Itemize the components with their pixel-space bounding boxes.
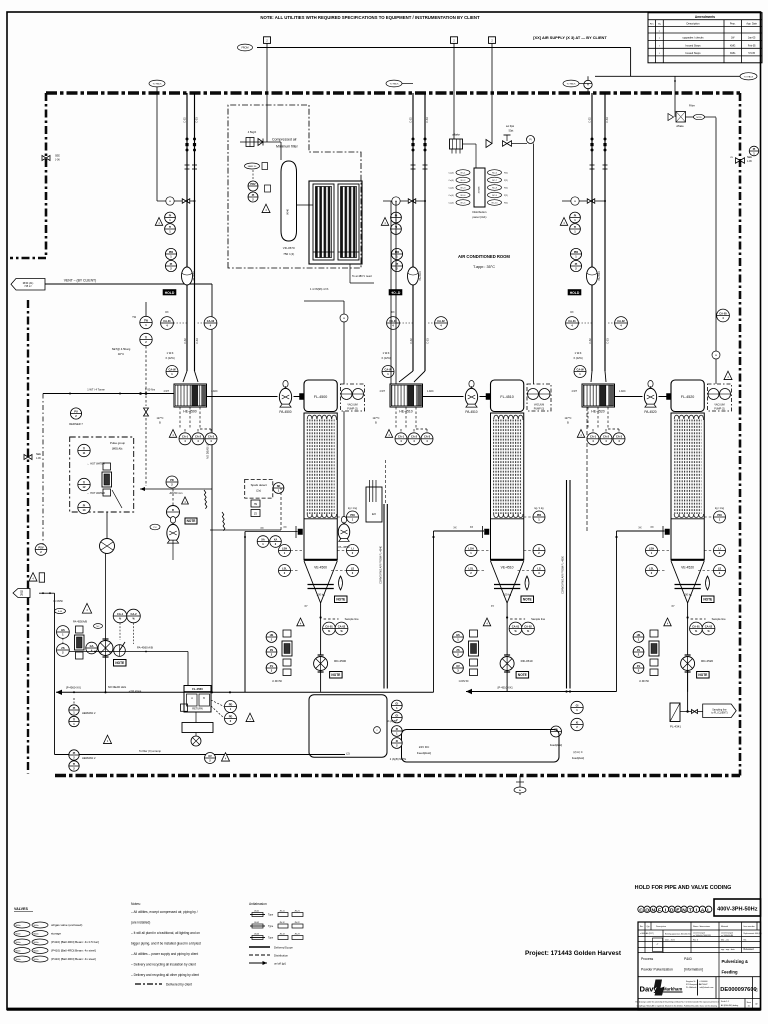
svg-text:XI: XI xyxy=(396,739,399,743)
svg-text:[P]: [P] xyxy=(20,594,23,597)
svg-text:4-MAN: 4-MAN xyxy=(478,186,481,193)
svg-text:Davy/Krupp. Metals AG is regis: Davy/Krupp. Metals AG is registered. Sha… xyxy=(637,1005,718,1008)
filter body FL-4510 xyxy=(491,413,524,560)
svg-text:info@davmk.com: info@davmk.com xyxy=(700,987,714,989)
packing enclosure 1 xyxy=(309,695,387,758)
instrument bubble xyxy=(273,483,284,494)
svg-text:CA-2: CA-2 xyxy=(603,435,610,439)
svg-text:FL-4520: FL-4520 xyxy=(681,395,694,399)
symbol row xyxy=(252,913,263,917)
feeder drop 4520 xyxy=(687,671,689,692)
svg-text:JN-12: JN-12 xyxy=(279,922,285,924)
svg-text:P(2): P(2) xyxy=(504,203,508,205)
svg-text:V040: V040 xyxy=(286,208,290,215)
svg-text:VE-4520: VE-4520 xyxy=(681,566,694,570)
svg-text:M: M xyxy=(343,318,345,320)
vessel instruments left 4500 xyxy=(279,545,291,557)
svg-text:[P-4560-XX]: [P-4560-XX] xyxy=(66,686,81,690)
heat exchanger HE-4500 xyxy=(174,384,207,407)
svg-text:LSH: LSH xyxy=(468,546,473,550)
pressure control valve xyxy=(503,141,512,147)
intake blower 4510 xyxy=(408,267,419,285)
svg-text:⅓ DN 50: ⅓ DN 50 xyxy=(639,680,649,683)
svg-text:Cu(4): Cu(4) xyxy=(448,173,453,175)
svg-text:LSH: LSH xyxy=(649,546,654,550)
svg-text:TI: TI xyxy=(83,480,86,484)
svg-text:XX: XX xyxy=(283,526,287,529)
sample line 4500 xyxy=(324,618,339,620)
svg-text:NOTE: NOTE xyxy=(331,673,340,677)
svg-text:XY: XY xyxy=(671,605,675,608)
svg-text:1 ADC: 1 ADC xyxy=(619,390,626,393)
svg-text:CA-02: CA-02 xyxy=(207,319,215,323)
svg-text:– All utilities, except compre: – All utilities, except compressed air, … xyxy=(131,910,198,914)
valve list row xyxy=(14,956,30,962)
svg-text:ZS: ZS xyxy=(637,648,641,652)
svg-text:FROM: FROM xyxy=(241,47,248,50)
outlet elbow A xyxy=(304,300,344,302)
valve list row xyxy=(14,939,30,945)
instrument pair xyxy=(257,536,269,548)
svg-text:Filter: Filter xyxy=(689,104,695,108)
pump discharge xyxy=(105,553,107,692)
svg-text:PA-4510: PA-4510 xyxy=(465,410,477,414)
note box 4520 xyxy=(702,596,715,603)
instrument pair right xyxy=(749,146,759,156)
svg-text:L: L xyxy=(707,907,710,913)
svg-text:P&ID: P&ID xyxy=(684,957,692,961)
svg-text:x 0601-A4 (1117): x 0601-A4 (1117) xyxy=(640,932,654,935)
riser pipes 4500 xyxy=(186,93,188,371)
filter C feed elbow xyxy=(617,530,665,532)
svg-text:750 l (4): 750 l (4) xyxy=(283,252,294,256)
enclosure instruments xyxy=(391,700,402,711)
diverter valve xyxy=(98,641,113,656)
svg-text:REFINER 7: REFINER 7 xyxy=(69,422,83,426)
svg-text:5.5.05: 5.5.05 xyxy=(748,52,755,55)
svg-text:This drawing is under the owne: This drawing is under the ownership of t… xyxy=(635,1001,719,1004)
svg-text:P(2): P(2) xyxy=(504,173,508,175)
svg-text:LSL: LSL xyxy=(282,566,287,570)
wire from flag to package xyxy=(266,48,268,143)
svg-text:Rev: Rev xyxy=(640,926,643,928)
svg-text:Rel.: Rel. xyxy=(744,940,748,942)
svg-text:PD: PD xyxy=(229,714,233,718)
svg-text:100 kg: 100 kg xyxy=(317,593,326,597)
svg-text:A: A xyxy=(701,907,705,913)
battery limit left lower xyxy=(27,300,29,774)
svg-text:VD-4570: VD-4570 xyxy=(283,246,295,250)
svg-text:XV: XV xyxy=(270,664,274,668)
vacuum pump unit 4500 xyxy=(341,384,365,411)
svg-text:PA-4550A/B: PA-4550A/B xyxy=(73,620,87,624)
hot water valve stack xyxy=(103,463,111,470)
svg-text:Project: 171443 Golden Harvest: Project: 171443 Golden Harvest xyxy=(525,950,622,957)
svg-text:JN-21: JN-21 xyxy=(294,910,300,912)
intake blower 4520 xyxy=(587,267,598,285)
heat exchanger HE-4510 xyxy=(390,384,423,407)
train C discharge xyxy=(687,671,689,712)
svg-text:Distribution: Distribution xyxy=(473,210,487,214)
note box 4510 xyxy=(516,672,529,679)
rotary feeder RD-4510 xyxy=(500,657,514,671)
instrument pair top xyxy=(113,609,127,623)
svg-text:kg / 1 kg: kg / 1 kg xyxy=(534,507,544,510)
svg-text:F: F xyxy=(658,907,661,913)
wire blower to filter 4500 xyxy=(294,396,305,398)
svg-text:Name / dimensions: Name / dimensions xyxy=(693,926,710,928)
wire vessel to dryers xyxy=(297,204,314,206)
conveying air pipe B xyxy=(566,480,568,689)
slide gate 4520 xyxy=(675,584,701,586)
instrument PI on drop xyxy=(587,76,589,93)
feeder drop 4510 xyxy=(506,671,508,692)
discharge alert 4500 xyxy=(297,618,304,626)
discharge instruments 4510 xyxy=(509,622,522,635)
legend line dashed xyxy=(249,954,270,956)
wire PCV to PI xyxy=(512,143,528,145)
HE-B feed pipes xyxy=(390,201,392,384)
svg-text:Material: Material xyxy=(721,925,729,928)
svg-text:upgrades / checks: upgrades / checks xyxy=(682,36,704,40)
dryer outlet wire xyxy=(349,264,351,283)
svg-text:Cu(4): Cu(4) xyxy=(448,203,453,205)
sample teardrop 4500 xyxy=(339,576,343,590)
svg-text:C: C xyxy=(755,988,758,993)
svg-text:Issued Steps: Issued Steps xyxy=(686,43,702,47)
svg-text:C-S2: C-S2 xyxy=(410,117,413,123)
svg-text:CA-W: CA-W xyxy=(576,367,584,371)
svg-text:HERMAN 2: HERMAN 2 xyxy=(82,756,96,760)
svg-text:4 5kg/h: 4 5kg/h xyxy=(248,130,257,134)
battery limit top xyxy=(46,91,740,94)
svg-text:Date – 2021: Date – 2021 xyxy=(665,939,675,942)
sample teardrop 4520 xyxy=(706,576,710,590)
svg-text:PDI: PDI xyxy=(395,250,400,254)
feeder drop 4500 xyxy=(320,671,322,692)
svg-text:PA-4520: PA-4520 xyxy=(644,410,656,414)
filter A feed riser xyxy=(244,532,246,693)
to-pack line C xyxy=(563,80,579,87)
svg-text:JN-01: JN-01 xyxy=(254,910,260,912)
svg-text:NOTE: NOTE xyxy=(523,598,532,602)
svg-text:PI: PI xyxy=(170,262,173,266)
circulation pump xyxy=(106,512,108,538)
svg-text:A3 (610x700) debug: A3 (610x700) debug xyxy=(721,1004,738,1007)
svg-text:FL-4510: FL-4510 xyxy=(500,395,513,399)
svg-text:LSL: LSL xyxy=(469,566,474,570)
svg-text:J-06: J-06 xyxy=(55,159,60,162)
svg-text:⅓ DN 50: ⅓ DN 50 xyxy=(459,680,469,683)
svg-text:kg / 1 kg: kg / 1 kg xyxy=(348,507,358,510)
heat exchanger HE-4520 xyxy=(582,384,615,407)
clean air outlet 4500 xyxy=(343,301,345,384)
temperature instruments xyxy=(145,302,147,316)
filter A feed elbow xyxy=(245,531,298,533)
riser instrument left 4510 xyxy=(387,317,400,330)
inlet nozzle 4520 xyxy=(665,529,670,535)
svg-text:4 WT: 4 WT xyxy=(572,391,578,393)
svg-text:bigger piping, and if be insta: bigger piping, and if be installed glued… xyxy=(131,942,201,946)
svg-text:CA-3: CA-3 xyxy=(424,435,431,439)
svg-text:PI: PI xyxy=(83,503,86,507)
svg-text:+1% slope: +1% slope xyxy=(129,689,142,693)
svg-text:Feed[dust]: Feed[dust] xyxy=(572,756,585,760)
svg-text:TI: TI xyxy=(83,446,86,450)
to-pack line B xyxy=(386,80,402,87)
svg-text:Type: Type xyxy=(268,914,274,917)
svg-text:PI: PI xyxy=(252,193,255,197)
svg-text:C-S3: C-S3 xyxy=(606,117,609,123)
symbol row xyxy=(252,924,263,928)
svg-text:[MDL4]±: [MDL4]± xyxy=(112,447,123,451)
vessel instruments right 4520 xyxy=(714,511,726,523)
PCV drop wire xyxy=(491,48,493,144)
valve list row xyxy=(14,922,30,928)
svg-text:offtake: offtake xyxy=(452,133,460,137)
svg-text:PA-4500: PA-4500 xyxy=(279,410,291,414)
discharge instruments 4500 xyxy=(323,622,336,635)
block valve stack 4520 xyxy=(633,632,644,643)
logo row xyxy=(715,977,717,999)
spark detect dashed box xyxy=(245,479,273,498)
svg-text:N: N xyxy=(682,907,686,913)
battery limit left upper xyxy=(45,93,48,258)
svg-text:Amendments: Amendments xyxy=(695,15,715,19)
sampling line xyxy=(680,711,703,713)
pressure reducer circles xyxy=(248,181,258,191)
svg-text:RETURN: RETURN xyxy=(192,708,203,711)
svg-text:SD: SD xyxy=(277,484,281,488)
note box 4510 xyxy=(521,596,534,603)
svg-text:X (22%): X (22%) xyxy=(573,356,583,360)
svg-text:PI: PI xyxy=(574,213,577,217)
svg-text:J-06: J-06 xyxy=(747,160,752,163)
svg-text:CA-W: CA-W xyxy=(168,367,176,371)
riser instrument right 4510 xyxy=(435,317,448,330)
svg-text:XA: XA xyxy=(274,537,278,541)
crossover with valve 4520 xyxy=(562,200,605,202)
svg-text:PI: PI xyxy=(575,262,578,266)
svg-text:CA-1: CA-1 xyxy=(182,435,189,439)
svg-text:PI: PI xyxy=(753,147,756,151)
svg-text:JN-23: JN-23 xyxy=(294,933,300,935)
svg-text:FL-4560: FL-4560 xyxy=(192,687,203,691)
svg-text:M: M xyxy=(715,355,717,357)
svg-text:Prep.: Prep. xyxy=(730,23,736,26)
alert tri + switch xyxy=(29,573,37,581)
svg-text:FI: FI xyxy=(172,509,175,512)
filter instruments 4510 xyxy=(391,248,402,259)
svg-text:panel (4x1): panel (4x1) xyxy=(473,215,487,219)
svg-text:Qty: Qty xyxy=(647,925,650,928)
filter header FL-4520 xyxy=(671,380,704,412)
crossover with valve 4510 xyxy=(383,200,425,202)
svg-text:1 W.K: 1 W.K xyxy=(167,351,174,355)
booster fan group xyxy=(166,476,178,488)
svg-text:XI: XI xyxy=(396,727,399,731)
air receiver vessel VD-4570 xyxy=(280,142,282,160)
clean air pipe down to vacuum unit B xyxy=(533,144,535,385)
svg-text:T: T xyxy=(689,907,692,913)
instrument pair 1 xyxy=(78,444,90,456)
off-page flag connector xyxy=(489,37,496,44)
svg-text:XX: XX xyxy=(470,526,474,529)
hopper 4500 xyxy=(304,561,321,603)
battery limit bottom xyxy=(55,774,740,777)
svg-text:DX: DX xyxy=(391,312,395,314)
svg-text:PA-4560 A/B: PA-4560 A/B xyxy=(137,646,153,650)
svg-text:DX: DX xyxy=(165,312,169,314)
svg-text:f 0710047: f 0710047 xyxy=(700,984,708,986)
vacuum pump unit 4510 xyxy=(527,384,551,411)
svg-text:C-S3: C-S3 xyxy=(426,117,429,123)
svg-text:1 W.K: 1 W.K xyxy=(575,351,582,355)
hand switches xyxy=(57,626,70,639)
main suction line xyxy=(43,393,174,395)
wire blower to filter 4510 xyxy=(480,396,491,398)
svg-text:2 (A)(B) NOTE: 2 (A)(B) NOTE xyxy=(390,758,407,761)
svg-text:CA-1: CA-1 xyxy=(590,435,597,439)
svg-text:127°C: 127°C xyxy=(157,417,164,420)
svg-text:A2: A2 xyxy=(755,1003,757,1006)
svg-text:VACUUM: VACUUM xyxy=(714,404,724,407)
symbol row xyxy=(252,936,263,940)
svg-text:CA-02: CA-02 xyxy=(437,319,445,323)
svg-text:C-S3: C-S3 xyxy=(606,338,609,344)
svg-text:AIR CONDITIONED ROOM: AIR CONDITIONED ROOM xyxy=(458,254,510,259)
svg-text:XY: XY xyxy=(491,605,495,608)
svg-text:(2) A | C: (2) A | C xyxy=(573,750,582,754)
svg-text:NOTE: NOTE xyxy=(698,673,707,677)
svg-text:← HOT WATER: ← HOT WATER xyxy=(87,492,105,495)
svg-text:To filter (X) at temp: To filter (X) at temp xyxy=(139,749,161,753)
riser instrument right 4500 xyxy=(204,317,217,330)
svg-text:PI: PI xyxy=(169,213,172,217)
svg-text:TO PACK: TO PACK xyxy=(744,75,754,78)
svg-text:x= 1000x50-B6: x= 1000x50-B6 xyxy=(721,935,733,937)
svg-text:GA: GA xyxy=(90,644,94,648)
svg-text:XX: XX xyxy=(638,527,642,530)
svg-text:PI: PI xyxy=(587,84,590,87)
svg-text:RD-4500: RD-4500 xyxy=(334,659,346,663)
svg-text:JN-22: JN-22 xyxy=(294,922,300,924)
sampling blower PL-4341 xyxy=(670,703,680,722)
svg-text:Type: Type xyxy=(268,937,274,940)
svg-text:TW: TW xyxy=(144,318,149,322)
svg-text:CA-2: CA-2 xyxy=(411,435,418,439)
svg-text:XY: XY xyxy=(304,605,308,608)
svg-text:GI: GI xyxy=(395,713,398,717)
svg-text:D: D xyxy=(670,907,674,913)
hopper 4520 xyxy=(671,561,688,603)
svg-text:LSL: LSL xyxy=(649,566,654,570)
svg-text:SEE: SEE xyxy=(747,156,752,159)
svg-text:C-S2: C-S2 xyxy=(589,338,592,344)
svg-text:CONVEYING AIR FROM FL-4540: CONVEYING AIR FROM FL-4540 xyxy=(380,546,383,584)
svg-text:JN-03: JN-03 xyxy=(254,933,260,935)
svg-text:Markham: Markham xyxy=(663,987,682,992)
vacuum exhaust blower PL-4550 xyxy=(338,524,349,540)
hopper outlet wire 4520 xyxy=(687,603,689,655)
svg-text:P-50 Nm: P-50 Nm xyxy=(145,388,155,392)
to-pack oval label right xyxy=(740,73,757,80)
svg-text:GI: GI xyxy=(395,701,398,705)
flex hose 1 xyxy=(204,490,207,509)
note box 4500 xyxy=(335,596,348,603)
svg-text:C-S2: C-S2 xyxy=(410,338,413,344)
sample point 2 xyxy=(69,750,79,760)
svg-text:50pt: 50pt xyxy=(509,130,514,133)
svg-text:FL-4500: FL-4500 xyxy=(314,395,327,399)
svg-text:CA-02: CA-02 xyxy=(338,624,346,628)
conveying air pipe A xyxy=(383,504,385,689)
air distribution header xyxy=(474,168,485,207)
hot water unit dashed box xyxy=(70,437,134,512)
svg-text:Notes:: Notes: xyxy=(131,902,141,906)
svg-text:LS: LS xyxy=(351,566,355,570)
svg-text:(2): (2) xyxy=(346,752,349,756)
rotary outlet xyxy=(191,736,201,746)
svg-text:NOTE: NOTE xyxy=(115,661,124,665)
svg-text:PDI: PDI xyxy=(717,513,722,517)
main blower PA-4510 xyxy=(465,388,477,405)
filter B feed riser xyxy=(433,531,435,692)
svg-text:Cu(4): Cu(4) xyxy=(448,180,453,182)
top right filter unit xyxy=(668,114,674,121)
svg-text:LS: LS xyxy=(718,566,722,570)
legend line heavy xyxy=(249,946,270,948)
svg-text:Process: Process xyxy=(641,957,654,961)
svg-text:745 m³: 745 m³ xyxy=(24,285,32,288)
svg-text:P(2): P(2) xyxy=(504,180,508,182)
svg-text:app – mgr – date: app – mgr – date xyxy=(721,948,735,951)
svg-text:Jan-05: Jan-05 xyxy=(748,37,756,40)
svg-text:XA: XA xyxy=(261,537,265,541)
svg-text:TI: TI xyxy=(169,225,172,229)
svg-text:Replacement: 400 (66): Replacement: 400 (66) xyxy=(744,932,763,935)
inlet filter valve set xyxy=(240,141,281,143)
svg-text:PL-4341: PL-4341 xyxy=(670,725,681,729)
svg-text:NOTE: NOTE xyxy=(336,598,345,602)
svg-text:set 6psi: set 6psi xyxy=(506,125,515,128)
hopper outlet wire 4510 xyxy=(506,603,508,655)
svg-text:1 m³/N(96) m³/h: 1 m³/N(96) m³/h xyxy=(310,287,329,291)
svg-text:on/off [gt]: on/off [gt] xyxy=(274,962,286,966)
right riser instruments xyxy=(717,309,730,322)
dashed legend row xyxy=(135,983,162,985)
svg-text:Kingston St.: Kingston St. xyxy=(686,980,696,983)
svg-text:Delivery/Scope: Delivery/Scope xyxy=(274,946,293,950)
discharge box xyxy=(182,723,213,733)
packing enclosure 2 xyxy=(402,730,560,763)
svg-text:PI: PI xyxy=(73,706,76,710)
solenoid drop wire xyxy=(453,48,455,140)
svg-text:PDI: PDI xyxy=(574,250,579,254)
svg-text:PD: PD xyxy=(229,702,233,706)
sample line 4510 xyxy=(510,618,525,620)
confidential stamp xyxy=(638,906,644,912)
svg-text:DE000097600: DE000097600 xyxy=(720,987,756,993)
svg-text:Description: Description xyxy=(687,22,701,26)
svg-text:CA-1: CA-1 xyxy=(398,435,405,439)
HE instrument drops 4510 xyxy=(395,407,397,429)
svg-text:HOLD FOR PIPE AND VALVE CODING: HOLD FOR PIPE AND VALVE CODING xyxy=(635,885,732,891)
svg-text:storage: storage xyxy=(51,932,61,936)
svg-text:CA-1: CA-1 xyxy=(117,612,124,616)
svg-text:XV: XV xyxy=(456,664,460,668)
svg-text:HS: HS xyxy=(456,633,460,637)
